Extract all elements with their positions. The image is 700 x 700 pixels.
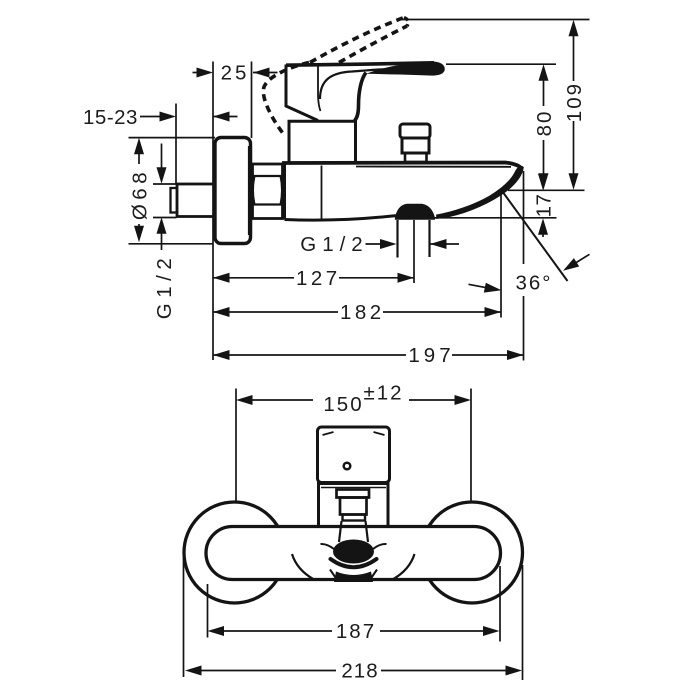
dimension 109 [573, 34, 575, 175]
cartridge mid-block [289, 121, 356, 162]
spout outlet vertical reference (182) [500, 192, 502, 318]
front view: cartridge collar [319, 484, 389, 527]
raised handle dashed tip cap [404, 18, 408, 27]
svg-text:G1/2: G1/2 [153, 253, 176, 319]
dimension G1/2 left [161, 144, 163, 251]
pipe-end reference line [175, 104, 177, 185]
svg-text:Ø68: Ø68 [128, 168, 151, 220]
front view: left escutcheon circle [184, 502, 285, 603]
lever blade black tip [366, 62, 445, 76]
front view: handle screw dot [344, 463, 351, 470]
dimension 127 [213, 277, 414, 279]
dimension 218 [184, 558, 523, 680]
front view: aerator right tick [371, 570, 378, 580]
angle 36 leader arrow to vertical [469, 284, 498, 289]
dimension 187 [208, 566, 501, 642]
aerator plane extension line (17 tick) [434, 217, 557, 219]
lever neck thick curve [355, 73, 367, 121]
angle 36 stream line [504, 193, 568, 281]
nut left barrel arc [253, 176, 255, 205]
svg-text:218: 218 [341, 660, 378, 683]
front view: left wing arc [292, 554, 314, 580]
escutcheon front reference line [251, 62, 253, 139]
raised handle dashed front arc [263, 63, 309, 135]
nut upper chamfer line [253, 175, 282, 177]
O68 top extension line [129, 137, 216, 139]
nut right barrel arc [281, 176, 283, 205]
front view: collar inner top line [321, 487, 386, 489]
spout top thick edge [282, 163, 523, 170]
svg-text:150: 150 [323, 393, 363, 416]
wall escutcheon flange [215, 138, 251, 244]
front view: diverter knob band 1 [337, 490, 370, 498]
spout bottom edge left of outlet [285, 216, 397, 220]
front view: spout opening ellipse [333, 540, 374, 564]
front view: body capsule [206, 527, 501, 580]
lever underside sweep curve [320, 68, 410, 99]
spout top inner chamfer line [356, 166, 511, 168]
raised-handle top extension line (109) [401, 19, 590, 21]
front view: crescent under spout [331, 559, 377, 567]
svg-text:182: 182 [340, 301, 385, 324]
dimension 197 [213, 354, 524, 356]
front view: aerator left tick [330, 570, 337, 580]
dimension 150+-12 [236, 389, 471, 502]
outlet centerline [413, 220, 415, 283]
dimension 25 [193, 72, 278, 74]
front view: handle [318, 427, 390, 483]
svg-text:109: 109 [563, 82, 586, 122]
nut lower chamfer line [253, 203, 282, 205]
front view: diverter knob band 3 [343, 515, 366, 521]
dimension 17 [542, 233, 544, 238]
lever inner face line [318, 66, 321, 111]
front view: handle top right tick [374, 432, 385, 435]
diverter knob base [405, 153, 427, 162]
diverter knob middle [402, 138, 429, 153]
front view: spout neck left line [339, 521, 342, 542]
dimension 15-23 [140, 116, 238, 118]
spout tip vertical reference (197) upper [523, 171, 525, 264]
front view: diverter knob band 2 [340, 498, 367, 515]
svg-text:15-23: 15-23 [83, 106, 138, 129]
svg-text:G1/2: G1/2 [300, 233, 368, 256]
front view: aerator block [334, 572, 373, 583]
svg-text:187: 187 [336, 620, 376, 643]
hose outlet pipe left side [396, 220, 398, 258]
body-spout joint line [321, 166, 323, 219]
dimension 182 [213, 311, 501, 313]
cartridge dome left edge [286, 65, 318, 121]
s-union threaded pipe G1/2 [177, 184, 215, 217]
dimension G1/2 middle [366, 243, 460, 245]
svg-text:25: 25 [221, 62, 250, 85]
G1/2 left top tick [153, 183, 177, 185]
connection nut [253, 164, 283, 219]
G1/2 left bottom tick [153, 217, 177, 219]
svg-text:127: 127 [296, 267, 341, 290]
raised handle dashed blade lower edge [339, 26, 407, 63]
front view: left lash curve [321, 544, 335, 549]
flange front face thick edge [248, 146, 252, 235]
svg-text:36°: 36° [515, 272, 552, 295]
front view: right wing arc [393, 554, 415, 580]
front view: handle top left tick [323, 432, 334, 435]
spout outlet plane extension line [508, 189, 585, 191]
svg-text:197: 197 [408, 344, 454, 367]
angle 36 leader arrow to stream [568, 254, 590, 267]
spout underside thick band [437, 166, 524, 218]
raised handle dashed blade upper edge [310, 18, 404, 63]
spout tip vertical reference (197) lower [523, 296, 525, 361]
dimension 80 [543, 79, 545, 175]
front view: spout neck right line [366, 521, 369, 542]
outlet dome blob [396, 204, 435, 219]
wall reference line [212, 62, 214, 361]
O68 bottom extension line [129, 243, 214, 245]
front view: right lash curve [373, 544, 387, 549]
svg-text:±12: ±12 [363, 382, 403, 405]
hose outlet pipe right side [428, 220, 430, 257]
body left edge [283, 164, 286, 220]
svg-text:17: 17 [532, 194, 555, 218]
diverter knob cap [400, 124, 430, 138]
s-union pipe end cap [171, 188, 178, 213]
dimension O68 [138, 152, 140, 228]
svg-text:80: 80 [533, 110, 556, 137]
handle top extension line (80) [446, 63, 556, 65]
lever blade top edge [286, 63, 434, 65]
front view: right escutcheon circle [422, 502, 523, 603]
